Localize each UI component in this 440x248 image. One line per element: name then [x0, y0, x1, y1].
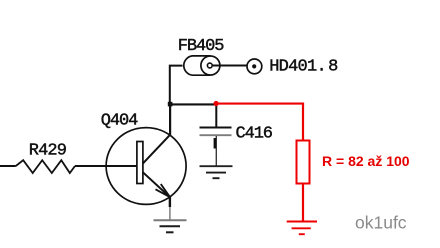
svg-text:FB405: FB405 — [178, 37, 224, 56]
ferrite bead FB405 lead left — [170, 66, 183, 104]
capacitor C416 plate bottom — [200, 134, 232, 136]
ground (emitter) — [154, 219, 187, 221]
resistor R (red box) — [297, 141, 310, 184]
transistor Q2 body circle — [106, 128, 186, 205]
svg-text:ok1ufc: ok1ufc — [355, 213, 407, 233]
svg-text:R429: R429 — [29, 141, 67, 160]
capacitor C416 wire top — [215, 105, 217, 127]
wire base input — [0, 165, 16, 167]
svg-text:HD401.8: HD401.8 — [269, 58, 338, 77]
ground (red) — [287, 221, 317, 223]
resistor R429 — [16, 160, 75, 173]
node red junction — [214, 101, 219, 106]
test point HD401.8 — [247, 59, 262, 74]
svg-text:Q404: Q404 — [101, 111, 138, 130]
svg-text:R = 82 až 100: R = 82 až 100 — [322, 153, 410, 169]
transistor base bar — [137, 142, 143, 184]
capacitor C416 plate top — [200, 127, 232, 129]
wire red resistor to ground — [302, 184, 304, 221]
emitter diagonal with arrow — [143, 172, 170, 197]
wire collector vertical — [169, 104, 171, 135]
wire cap to ground — [215, 136, 217, 166]
wire emitter to ground — [169, 197, 171, 207]
wire top horizontal — [170, 103, 216, 105]
node junction FB/collector — [168, 102, 173, 107]
ferrite bead FB405 body — [184, 56, 211, 75]
ground (C416) — [200, 165, 233, 167]
wire base to transistor — [75, 165, 137, 167]
svg-text:C416: C416 — [236, 124, 273, 143]
wire FB right lead — [212, 65, 247, 67]
wire red vertical to resistor — [302, 104, 304, 141]
wire red horizontal — [216, 103, 304, 105]
collector diagonal — [143, 134, 171, 163]
